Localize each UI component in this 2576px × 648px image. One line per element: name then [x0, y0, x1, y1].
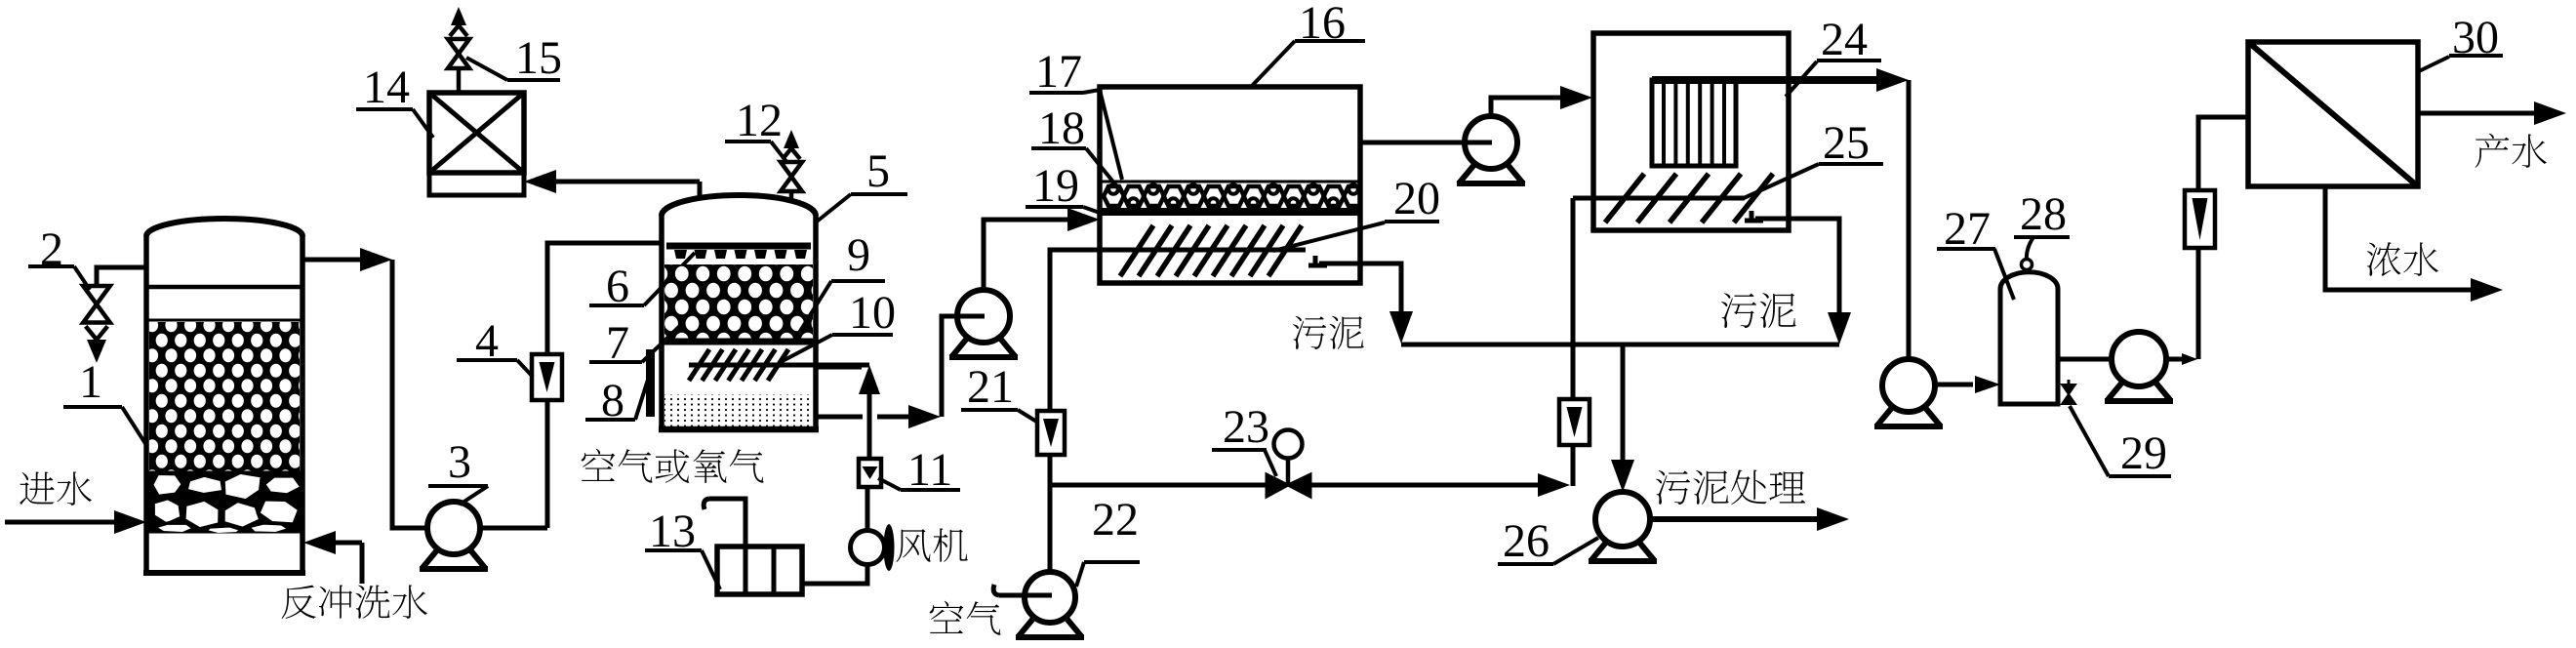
- valve 2: [83, 286, 110, 363]
- tank16 sludge wire: [1319, 263, 1401, 314]
- text chanshui (product water): [2475, 134, 2547, 168]
- membrane tank 24: [1593, 33, 1789, 230]
- text fanchongxishui: [282, 585, 427, 619]
- sludge drain mark in tank 16: [1313, 256, 1318, 267]
- pump discharge wire riser to RO membrane 30: [2166, 357, 2184, 362]
- svg-text:21: 21: [967, 361, 1014, 413]
- svg-text:26: 26: [1503, 515, 1550, 567]
- svg-text:22: 22: [1092, 494, 1139, 546]
- air pump 22: [1016, 615, 1084, 637]
- text wuni-chuli (sludge treatment): [1656, 470, 1805, 505]
- svg-text:25: 25: [1823, 117, 1870, 169]
- flow meter (RO feed): [2185, 190, 2215, 248]
- valve 2 drain branch wire: [97, 267, 146, 286]
- backwash wire (fan chong xi shui): [303, 531, 336, 554]
- sludge drain mark in tank 24: [1750, 211, 1754, 223]
- text nongshui (concentrate): [2367, 242, 2438, 276]
- aerator 9/10 in tank 5: [689, 363, 869, 368]
- transfer pump (tank5 to tank16): [949, 335, 1018, 357]
- flow meter (tank24 air line): [1559, 399, 1590, 445]
- svg-text:24: 24: [1821, 14, 1868, 65]
- pump discharge wire into tank 16: [984, 220, 1071, 290]
- tank 5 water stipple: [664, 394, 813, 426]
- product water wire: [2418, 111, 2536, 116]
- text fengji (blower): [897, 528, 968, 562]
- tank5 exhaust wire to exchanger 14: [698, 182, 703, 199]
- svg-text:19: 19: [1032, 160, 1079, 212]
- svg-text:9: 9: [847, 229, 870, 281]
- air header wire to control valve 23: [1050, 483, 1267, 488]
- pump 3: [420, 547, 488, 569]
- tank27 outlet wire: [2058, 357, 2113, 362]
- svg-text:17: 17: [1035, 46, 1082, 98]
- tank 1 media bed: [148, 319, 301, 322]
- air filter 13 (3-cell box): [717, 547, 802, 594]
- svg-text:20: 20: [1393, 173, 1440, 224]
- reactor tank 5: [662, 195, 816, 216]
- tank 5 outlet wire to transfer pump: [816, 415, 863, 420]
- svg-text:10: 10: [849, 287, 896, 339]
- sludge pump 26: [1589, 539, 1657, 561]
- air riser wire with flow meter into tank24 aerator: [1571, 198, 1576, 399]
- air riser wire with flow meter 21 into tank16 aerator: [1048, 455, 1053, 485]
- svg-text:1: 1: [79, 356, 102, 408]
- concentrate wire: [2325, 186, 2473, 290]
- permeate pump: [1874, 404, 1943, 426]
- svg-text:12: 12: [736, 95, 783, 146]
- settling tank 16: [1100, 87, 1360, 283]
- sludge header wire: [1401, 343, 1839, 347]
- aerator 20 in tank 16: [1099, 248, 1306, 253]
- level gauge 28: [2022, 260, 2033, 270]
- tank 16 floating media layer 19: [1100, 181, 1360, 183]
- svg-text:14: 14: [363, 61, 410, 113]
- flow meter 21: [1037, 411, 1065, 455]
- svg-text:28: 28: [2020, 188, 2067, 240]
- blower (fan): [851, 531, 885, 565]
- text kongqi-huo-yangqi (air or oxygen): [582, 449, 764, 483]
- transfer pump (tank16 to tank24): [1457, 161, 1525, 183]
- wire blower up to flow meter 11: [865, 459, 870, 530]
- exchanger 14 (crossed box): [429, 93, 524, 173]
- RO feed pump: [2105, 379, 2173, 401]
- tank 1 gravel layer: [148, 471, 301, 533]
- vent valve 12 on tank 5 dome: [789, 191, 794, 202]
- text wuni (sludge) under tank 16: [1293, 316, 1364, 349]
- tank1 outlet wire to pump 3: [302, 258, 365, 263]
- svg-text:5: 5: [866, 145, 890, 197]
- control valve 23: [1267, 474, 1310, 497]
- flow meter 11: [859, 459, 881, 487]
- text kongqi (air): [930, 601, 1001, 635]
- air wire with up arrow into tank 5 aerator: [867, 394, 872, 459]
- membrane module in tank 24: [1652, 80, 1736, 166]
- inlet water wire (jin shui): [5, 520, 118, 525]
- permeate wire (thick) from membrane module: [1652, 76, 1881, 84]
- air pump 22 wire: [1048, 485, 1053, 572]
- text jinshui: [20, 471, 92, 505]
- drain valve 29: [2062, 385, 2075, 404]
- text wuni (sludge) under tank 24: [1721, 293, 1796, 328]
- svg-text:29: 29: [2120, 427, 2167, 479]
- tank 5 media bed 7: [664, 264, 813, 339]
- air intake hook of filter 13: [709, 499, 745, 547]
- sludge disposal wire: [1650, 516, 1819, 522]
- tank24 sludge wire: [1755, 219, 1839, 315]
- tank 1 (media filter column): [146, 219, 302, 236]
- intermediate tank 27: [2000, 272, 2058, 404]
- RO membrane 30 (box with diagonal): [2248, 42, 2418, 186]
- pump discharge wire into membrane tank 24: [1491, 98, 1564, 116]
- svg-text:3: 3: [448, 436, 471, 488]
- svg-text:23: 23: [1223, 401, 1269, 453]
- air intake hook of pump 22: [999, 593, 1052, 598]
- pump3 discharge wire riser to tank 5: [480, 526, 547, 531]
- flow meter 4: [532, 354, 562, 400]
- wire filter13 to blower: [802, 566, 867, 584]
- down pipe bracket 8: [646, 349, 655, 417]
- sludge wire to pump 26: [1621, 344, 1626, 463]
- distributor 6 (header with nozzles): [666, 243, 811, 250]
- tank16 outlet wire to pump: [1360, 141, 1465, 145]
- aerator 25 in tank 24: [1573, 196, 1745, 201]
- pump discharge wire into tank 27: [1935, 383, 1973, 387]
- svg-text:15: 15: [515, 32, 562, 84]
- vent valve 15: [457, 68, 462, 93]
